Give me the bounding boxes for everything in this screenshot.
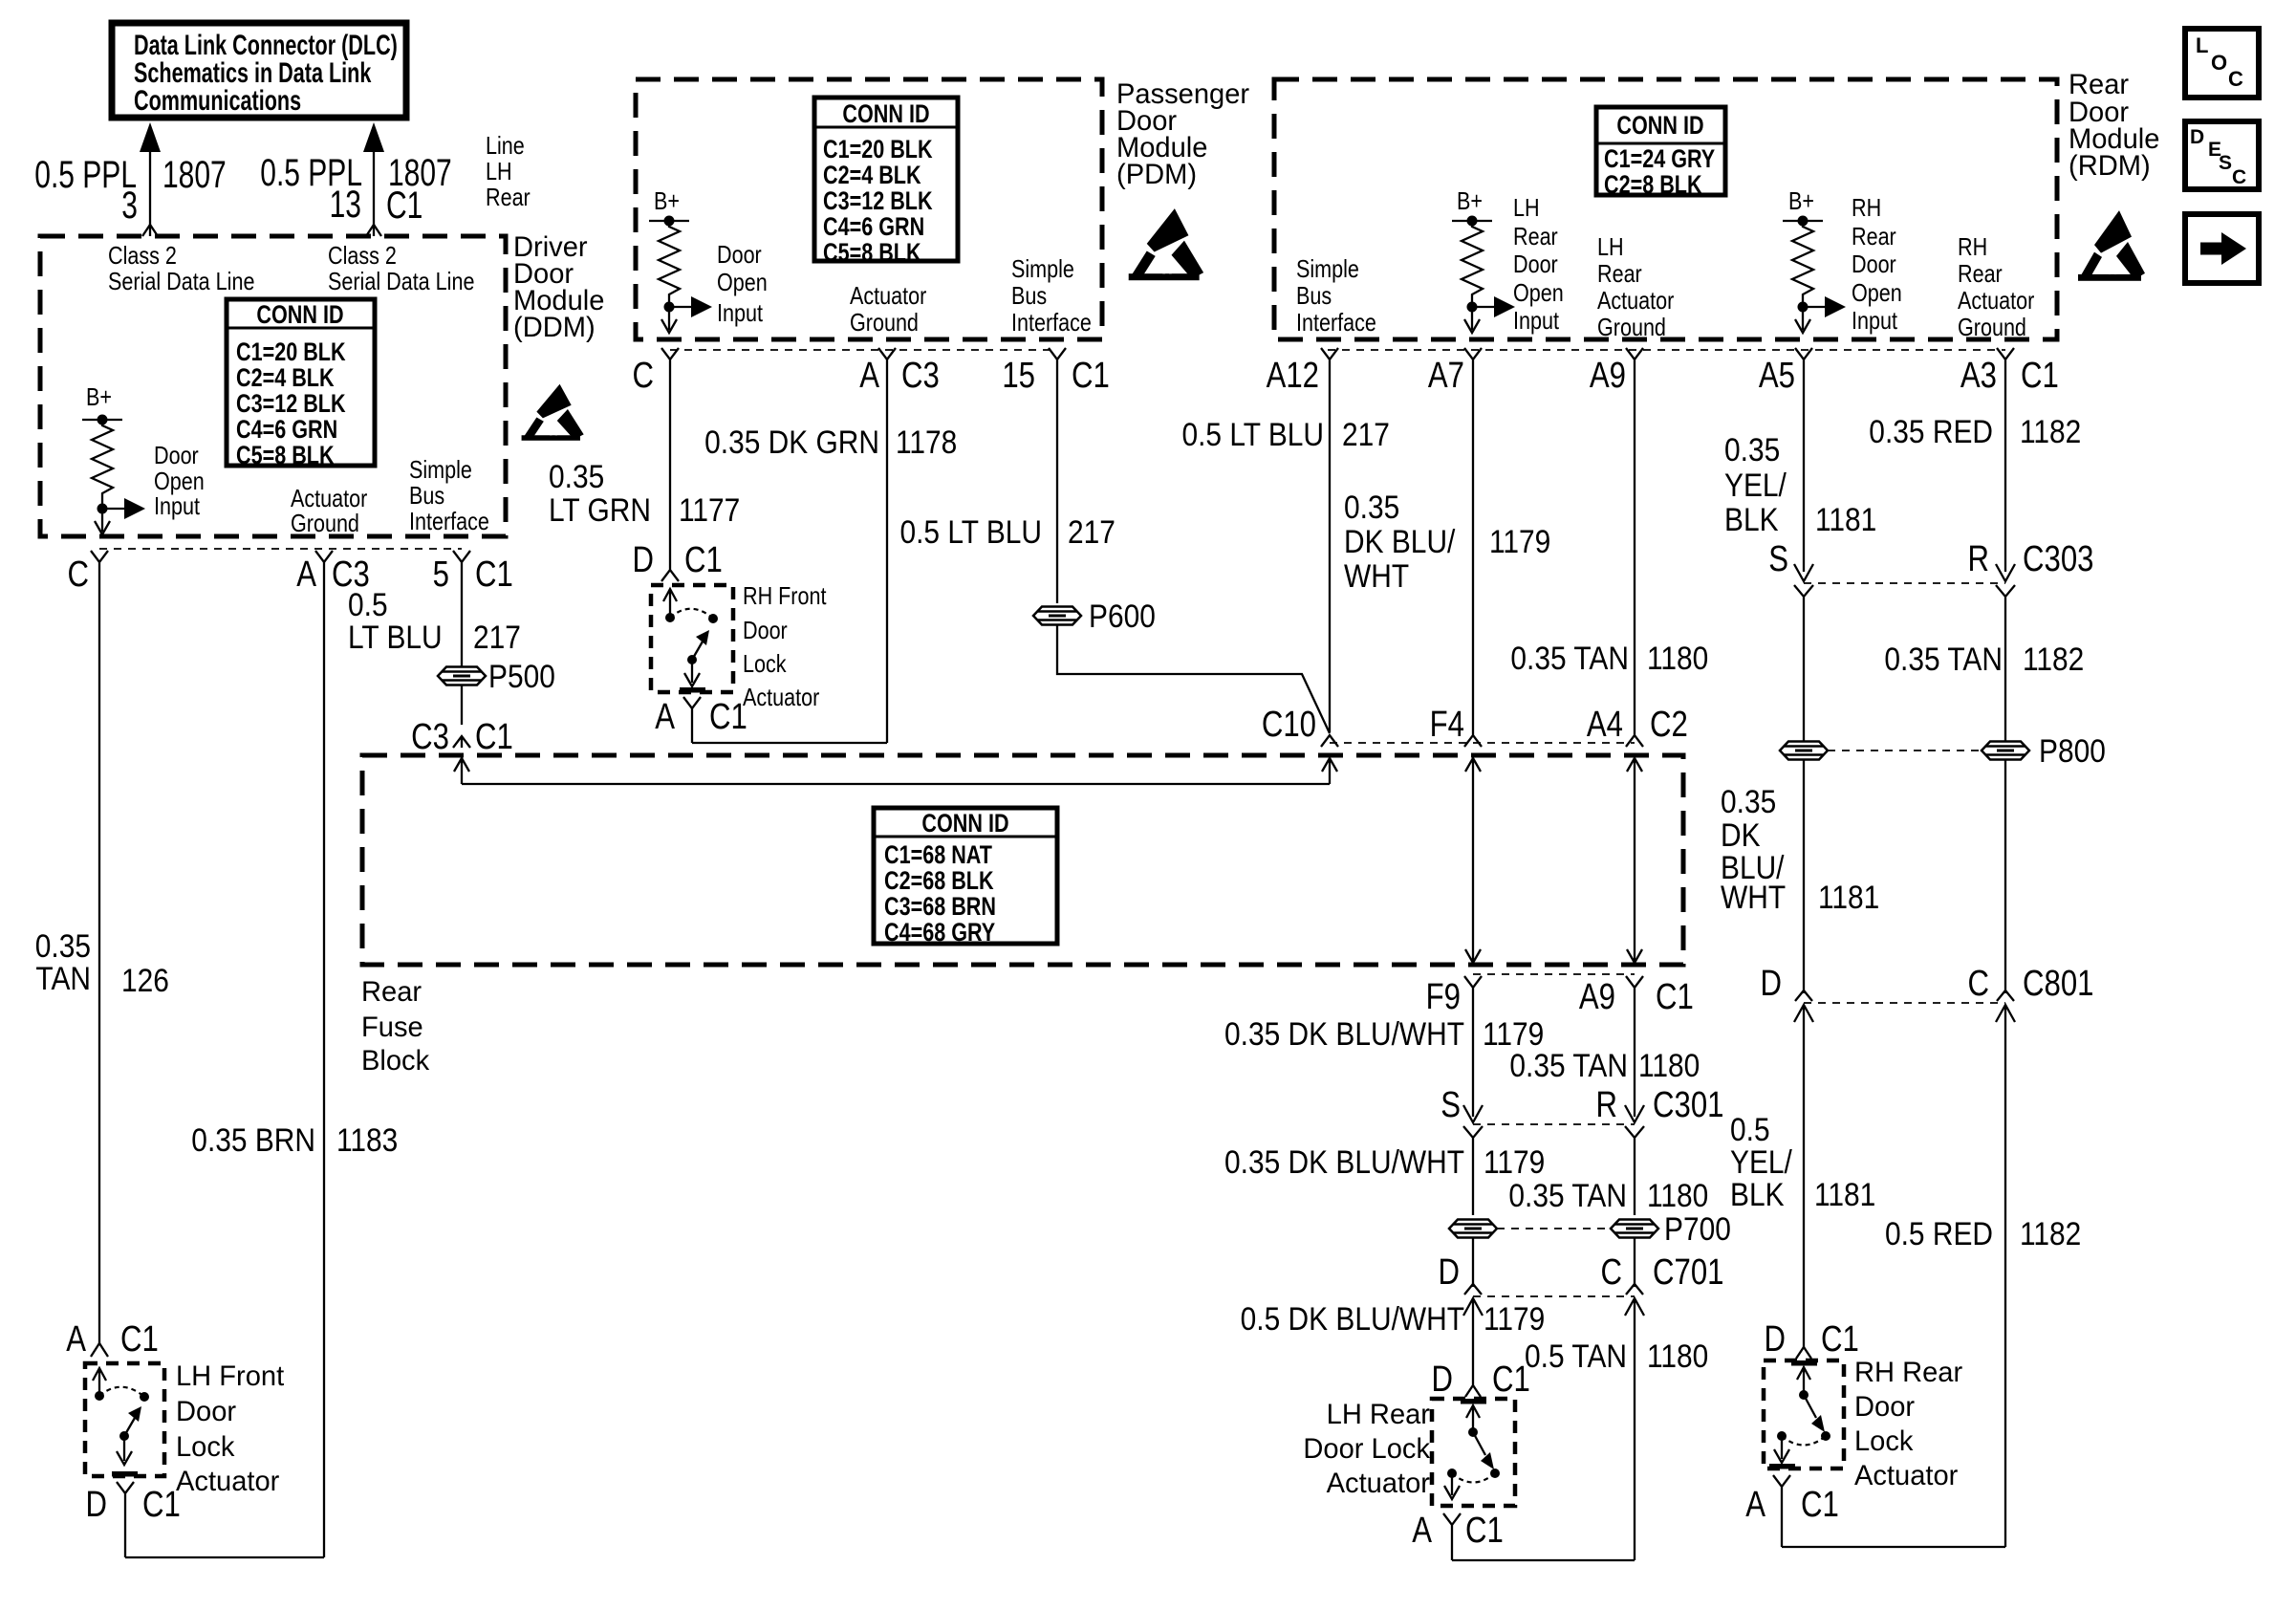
svg-text:A9: A9	[1579, 977, 1615, 1017]
svg-text:O: O	[2211, 51, 2227, 75]
pin C connector	[91, 551, 108, 1343]
svg-text:A: A	[1412, 1511, 1433, 1551]
svg-text:Class 2: Class 2	[328, 242, 397, 270]
svg-text:0.35 TAN: 0.35 TAN	[1508, 1177, 1627, 1213]
svg-text:Rear: Rear	[1852, 223, 1896, 250]
RH front actuator internals: up arrow	[663, 589, 677, 618]
PDM pin C connector	[661, 348, 679, 568]
RH rear actuator switch lever	[1804, 1395, 1816, 1418]
RH front actuator bottom contact bar	[680, 687, 705, 693]
pin 5/C1 connector	[453, 551, 470, 666]
svg-text:1180: 1180	[1647, 1338, 1708, 1374]
RDM pin A12 connector	[1321, 348, 1338, 732]
svg-text:A12: A12	[1267, 356, 1319, 396]
resistor RDM RH rear door open input	[1792, 221, 1813, 307]
svg-text:Input: Input	[154, 492, 200, 520]
down arrow to pin C	[101, 509, 103, 532]
svg-text:RH: RH	[1852, 194, 1881, 222]
svg-text:0.35: 0.35	[35, 927, 91, 964]
P800 dashed link	[1828, 750, 1982, 751]
svg-text:Lock: Lock	[1854, 1425, 1914, 1457]
svg-text:1178: 1178	[896, 424, 957, 460]
svg-text:C10: C10	[1262, 705, 1316, 745]
svg-text:C801: C801	[2023, 964, 2093, 1004]
svg-text:217: 217	[1342, 416, 1390, 452]
svg-text:C4=6 GRN: C4=6 GRN	[236, 416, 337, 445]
svg-text:1181: 1181	[1818, 879, 1879, 915]
svg-text:C2: C2	[1650, 705, 1688, 745]
svg-text:B+: B+	[654, 187, 680, 215]
svg-text:0.35 DK GRN: 0.35 DK GRN	[704, 424, 879, 460]
svg-text:WHT: WHT	[1344, 557, 1409, 594]
B+ bar and node RDM LH	[1452, 220, 1492, 222]
svg-text:C: C	[2228, 67, 2243, 91]
Rear Door Module dashed box	[1274, 79, 2057, 339]
arrow to LH Rear Door Open Input	[1472, 306, 1500, 308]
svg-text:P700: P700	[1664, 1210, 1731, 1247]
svg-text:Ground: Ground	[1597, 314, 1666, 341]
svg-text:D: D	[632, 540, 654, 580]
svg-text:Open: Open	[1852, 279, 1902, 307]
svg-text:0.35 TAN: 0.35 TAN	[1509, 1047, 1628, 1083]
CONN ID table DDM	[227, 299, 375, 466]
svg-text:(PDM): (PDM)	[1116, 159, 1197, 190]
svg-text:C1: C1	[1656, 977, 1694, 1017]
svg-text:C3=12 BLK: C3=12 BLK	[823, 187, 933, 216]
svg-text:B+: B+	[86, 383, 112, 411]
DDM connector face line	[99, 548, 462, 550]
svg-text:C: C	[1600, 1252, 1622, 1293]
svg-text:0.5 RED: 0.5 RED	[1885, 1215, 1993, 1251]
svg-text:Interface: Interface	[1296, 309, 1376, 337]
svg-text:Door: Door	[176, 1396, 236, 1427]
svg-text:(DDM): (DDM)	[513, 312, 596, 343]
Rear Fuse Block dashed box	[362, 755, 1683, 965]
svg-text:0.35 DK BLU/WHT: 0.35 DK BLU/WHT	[1224, 1143, 1464, 1180]
RH rear actuator top contact bar	[1791, 1360, 1817, 1366]
fuse block top connector face line	[1330, 742, 1635, 744]
svg-text:F9: F9	[1426, 977, 1461, 1017]
svg-text:Door: Door	[1852, 250, 1896, 278]
Passenger Door Module dashed box	[636, 79, 1102, 339]
svg-text:1180: 1180	[1638, 1047, 1700, 1083]
svg-text:A: A	[1745, 1485, 1766, 1525]
ESD symbol PDM	[1129, 208, 1203, 280]
svg-text:A: A	[655, 697, 676, 737]
svg-text:LH: LH	[486, 158, 512, 185]
wire D to actuator ground return	[125, 1556, 324, 1558]
svg-text:P600: P600	[1089, 598, 1156, 634]
svg-text:Rear: Rear	[1958, 260, 2003, 288]
svg-text:C2=4 BLK: C2=4 BLK	[823, 162, 921, 190]
svg-text:LH: LH	[1513, 194, 1540, 222]
LH rear actuator contact dot left	[1447, 1469, 1457, 1478]
svg-text:A7: A7	[1428, 356, 1464, 396]
wires below P700	[1472, 1238, 1474, 1287]
svg-text:D: D	[1764, 1319, 1786, 1360]
svg-text:Ground: Ground	[291, 510, 359, 537]
svg-text:Rear: Rear	[1597, 260, 1642, 288]
pin F4 chevron	[1464, 724, 1482, 747]
svg-text:P500: P500	[488, 658, 555, 694]
svg-text:Lock: Lock	[743, 650, 787, 678]
B+ bar and node	[82, 419, 122, 421]
svg-text:CONN ID: CONN ID	[842, 100, 929, 129]
DESC box	[2185, 121, 2259, 189]
svg-text:Serial Data Line: Serial Data Line	[108, 268, 254, 295]
svg-text:R: R	[1595, 1085, 1617, 1125]
internal bus arrow at C10	[1322, 758, 1337, 784]
svg-text:0.5 LT BLU: 0.5 LT BLU	[1181, 416, 1324, 452]
wire below P500	[461, 685, 463, 725]
RH Rear Door Lock Actuator box	[1764, 1360, 1844, 1469]
svg-text:C1: C1	[142, 1485, 181, 1525]
CONN ID table fuse block	[874, 808, 1057, 944]
svg-text:D: D	[2190, 126, 2204, 148]
svg-text:1179: 1179	[1484, 1143, 1545, 1180]
svg-text:0.35: 0.35	[549, 458, 604, 494]
svg-text:DK: DK	[1721, 816, 1761, 853]
svg-text:Ground: Ground	[850, 309, 919, 337]
RH front actuator dashed arc	[670, 609, 713, 619]
svg-text:C1=24 GRY: C1=24 GRY	[1604, 145, 1715, 174]
svg-text:Input: Input	[1852, 307, 1897, 335]
LH rear actuator switch lever	[1473, 1432, 1485, 1455]
svg-text:0.5: 0.5	[348, 586, 388, 622]
svg-text:Actuator: Actuator	[1958, 287, 2034, 315]
svg-text:LH Front: LH Front	[176, 1360, 284, 1392]
node dot RDM RH	[1798, 302, 1809, 313]
svg-text:0.5 DK BLU/WHT: 0.5 DK BLU/WHT	[1241, 1300, 1464, 1337]
svg-text:TAN: TAN	[35, 960, 91, 996]
LH front actuator pin D connector	[117, 1482, 134, 1557]
splice P600	[1033, 607, 1081, 625]
svg-text:Block: Block	[361, 1045, 429, 1077]
svg-text:1183: 1183	[336, 1121, 398, 1158]
svg-text:Serial Data Line: Serial Data Line	[328, 268, 474, 295]
svg-text:0.35 TAN: 0.35 TAN	[1884, 641, 2003, 677]
svg-text:217: 217	[473, 619, 521, 655]
svg-text:5: 5	[433, 555, 449, 595]
svg-text:Simple: Simple	[1011, 255, 1074, 283]
svg-text:Input: Input	[717, 299, 763, 327]
svg-text:0.35 TAN: 0.35 TAN	[1510, 640, 1629, 676]
wire LH rear A to ground return	[1452, 1559, 1635, 1561]
PDM connector face line	[670, 349, 1057, 351]
svg-text:0.5: 0.5	[1730, 1111, 1770, 1147]
ESD symbol RDM	[2078, 210, 2145, 281]
svg-text:F4: F4	[1430, 705, 1464, 745]
CONN ID table RDM	[1596, 107, 1725, 195]
LH front actuator switch lever	[119, 1431, 129, 1441]
RH front actuator pin D connector	[661, 568, 679, 581]
pin A9/C1 connector	[1626, 976, 1643, 1117]
LH Rear Door Lock Actuator box	[1432, 1399, 1515, 1506]
svg-text:Ground: Ground	[1958, 314, 2026, 341]
svg-text:RH Front: RH Front	[743, 582, 827, 610]
svg-text:1181: 1181	[1815, 501, 1876, 537]
wire RH rear A to ground return	[1782, 1546, 2005, 1548]
svg-text:Door Lock: Door Lock	[1303, 1433, 1430, 1465]
pin A4/C2 chevron	[1626, 724, 1643, 747]
svg-text:A3: A3	[1960, 356, 1997, 396]
svg-text:1177: 1177	[679, 491, 740, 528]
B+ bar and node RDM RH	[1783, 220, 1823, 222]
svg-text:A: A	[859, 356, 880, 396]
ESD symbol DDM	[522, 384, 584, 441]
svg-text:C701: C701	[1653, 1252, 1723, 1293]
pin C10 chevron	[1321, 735, 1338, 747]
node dot RDM LH	[1467, 302, 1478, 313]
LOC box	[2185, 29, 2259, 98]
svg-text:Door: Door	[1854, 1391, 1915, 1423]
svg-text:1179: 1179	[1484, 1300, 1545, 1337]
svg-text:0.35 BRN: 0.35 BRN	[191, 1121, 315, 1158]
svg-text:D: D	[1431, 1360, 1453, 1400]
svg-text:C3=68 BRN: C3=68 BRN	[884, 893, 996, 922]
LH front actuator internals: up arrow	[93, 1368, 106, 1396]
svg-text:YEL/: YEL/	[1724, 467, 1787, 503]
arrow to Door Open Input PDM	[669, 306, 697, 308]
svg-text:0.35: 0.35	[1344, 489, 1399, 525]
svg-text:Actuator: Actuator	[1327, 1468, 1431, 1499]
svg-text:L: L	[2196, 33, 2208, 57]
down arrow to pin A5	[1802, 307, 1804, 330]
svg-text:Simple: Simple	[409, 456, 472, 484]
wires below P800	[1803, 760, 1805, 993]
svg-text:Door: Door	[717, 241, 762, 269]
svg-text:C: C	[2232, 166, 2246, 188]
svg-text:C1: C1	[1465, 1511, 1504, 1551]
svg-text:0.35 RED: 0.35 RED	[1869, 413, 1993, 449]
svg-text:0.35: 0.35	[1721, 783, 1776, 819]
LH front actuator dashed arc	[99, 1387, 144, 1397]
svg-text:1179: 1179	[1489, 523, 1550, 559]
svg-text:Bus: Bus	[1296, 282, 1332, 310]
svg-text:C1: C1	[475, 555, 513, 595]
svg-text:Input: Input	[1513, 307, 1559, 335]
LH front actuator contact dot right	[140, 1392, 149, 1402]
svg-text:RH Rear: RH Rear	[1854, 1357, 1962, 1388]
svg-text:15: 15	[1002, 356, 1035, 396]
RH front actuator pin A connector	[683, 697, 701, 743]
RH rear actuator contact dot left	[1777, 1431, 1787, 1441]
svg-text:C2=4 BLK: C2=4 BLK	[236, 364, 335, 393]
RDM pin A9 connector	[1626, 348, 1643, 724]
svg-text:C5=8 BLK: C5=8 BLK	[236, 442, 335, 470]
svg-text:A: A	[66, 1319, 87, 1360]
svg-text:Open: Open	[1513, 279, 1564, 307]
LH front actuator pin A connector	[91, 1343, 108, 1357]
svg-text:A9: A9	[1590, 356, 1626, 396]
svg-text:1182: 1182	[2023, 641, 2084, 677]
svg-text:1180: 1180	[1647, 640, 1708, 676]
svg-text:Class 2: Class 2	[108, 242, 177, 270]
svg-text:LT GRN: LT GRN	[549, 491, 651, 528]
P700 dashed link	[1497, 1228, 1611, 1229]
svg-text:126: 126	[121, 962, 169, 998]
RH rear actuator up arrow	[1797, 1367, 1810, 1395]
svg-text:C5=8 BLK: C5=8 BLK	[823, 239, 921, 268]
svg-text:Open: Open	[717, 269, 768, 296]
LH Front Door Lock Actuator box	[85, 1363, 164, 1476]
svg-text:C: C	[632, 356, 654, 396]
svg-text:Line: Line	[486, 132, 525, 160]
svg-text:C3: C3	[411, 717, 449, 757]
svg-text:C1=20 BLK: C1=20 BLK	[823, 136, 933, 164]
RDM pin A5 connector	[1795, 348, 1812, 572]
splice pass-through P800 left	[1780, 742, 1828, 760]
svg-text:Rear: Rear	[361, 976, 422, 1008]
RH rear actuator dashed arc	[1782, 1436, 1826, 1446]
svg-text:CONN ID: CONN ID	[1616, 112, 1703, 141]
RH front actuator contact dot right	[708, 614, 718, 623]
svg-text:C3: C3	[901, 356, 940, 396]
fuse wire F4-F9 with end arrows	[1465, 758, 1481, 963]
svg-text:S: S	[2219, 152, 2232, 174]
wire to DLC pin 13	[373, 145, 375, 236]
svg-text:BLK: BLK	[1730, 1176, 1785, 1212]
svg-text:1180: 1180	[1647, 1177, 1708, 1213]
svg-text:13: 13	[330, 184, 361, 226]
svg-text:1182: 1182	[2020, 1215, 2081, 1251]
PDM pin A/C3 connector	[878, 348, 896, 743]
RH rear actuator down arrow	[1781, 1436, 1783, 1459]
wire to DLC pin 3	[149, 145, 151, 236]
LH rear actuator up arrow	[1466, 1405, 1480, 1432]
svg-text:1181: 1181	[1814, 1176, 1875, 1212]
arrow to RH Rear Door Open Input	[1803, 306, 1830, 308]
fuse wire A4-A9 with end arrows	[1627, 758, 1642, 963]
RH front actuator switch lever	[687, 655, 697, 664]
svg-text:A: A	[296, 555, 317, 595]
RH Front Door Lock Actuator box	[651, 585, 733, 692]
LH rear actuator dashed arc	[1452, 1473, 1495, 1483]
svg-text:C1: C1	[1072, 356, 1110, 396]
svg-text:C1: C1	[1821, 1319, 1859, 1360]
LH rear actuator pin A connector	[1443, 1513, 1461, 1560]
svg-text:S: S	[1768, 539, 1788, 579]
pin F9 connector	[1464, 976, 1482, 1117]
svg-text:BLK: BLK	[1724, 501, 1779, 537]
svg-text:B+: B+	[1788, 187, 1814, 215]
svg-text:C1: C1	[684, 540, 723, 580]
fuse block bottom connector face line	[1473, 973, 1635, 975]
svg-text:0.5 LT BLU: 0.5 LT BLU	[899, 513, 1042, 550]
RDM pin A3/C1 connector	[1997, 348, 2014, 572]
svg-text:Actuator: Actuator	[176, 1466, 280, 1497]
svg-text:C301: C301	[1653, 1085, 1723, 1125]
svg-text:Interface: Interface	[409, 508, 489, 535]
RDM pin A7 connector	[1464, 348, 1482, 724]
LH front actuator bottom contact bar	[112, 1471, 138, 1477]
svg-text:C1=20 BLK: C1=20 BLK	[236, 338, 346, 367]
svg-text:R: R	[1967, 539, 1989, 579]
node dot	[97, 504, 108, 514]
svg-text:Actuator: Actuator	[1854, 1460, 1959, 1491]
svg-text:C1: C1	[1801, 1485, 1839, 1525]
wire A to PDM actuator ground	[692, 742, 887, 744]
svg-text:C4=68 GRY: C4=68 GRY	[884, 919, 995, 947]
svg-text:C: C	[1967, 964, 1989, 1004]
node dot PDM	[664, 302, 675, 313]
svg-text:DK BLU/: DK BLU/	[1344, 523, 1455, 559]
down arrow to pin C PDM	[668, 307, 670, 330]
LH rear actuator top contact bar	[1461, 1399, 1486, 1404]
RH rear actuator pin A connector	[1773, 1475, 1790, 1547]
internal bus wire	[462, 783, 1330, 785]
svg-text:D: D	[1438, 1252, 1460, 1293]
svg-text:CONN ID: CONN ID	[921, 810, 1008, 838]
svg-text:C1: C1	[120, 1319, 159, 1360]
svg-text:C2=8 BLK: C2=8 BLK	[1604, 171, 1702, 200]
svg-text:LH: LH	[1597, 233, 1624, 261]
svg-text:(RDM): (RDM)	[2069, 150, 2151, 182]
pin A/C3 connector	[315, 551, 333, 1557]
svg-text:Door: Door	[743, 617, 788, 644]
svg-text:Open: Open	[154, 468, 205, 495]
svg-text:B+: B+	[1457, 187, 1483, 215]
svg-text:P800: P800	[2039, 732, 2106, 769]
splice pass-through P700 right	[1611, 1220, 1658, 1238]
svg-text:Rear: Rear	[1513, 223, 1558, 250]
svg-text:1182: 1182	[2020, 413, 2081, 449]
svg-text:C1=68 NAT: C1=68 NAT	[884, 841, 992, 870]
Driver Door Module dashed box	[40, 236, 506, 536]
svg-text:C1: C1	[709, 697, 747, 737]
svg-text:D: D	[85, 1485, 107, 1525]
CONN ID table PDM	[814, 98, 958, 261]
svg-text:Communications: Communications	[134, 83, 301, 116]
RH front actuator down arrow	[691, 660, 693, 683]
svg-text:1807: 1807	[162, 154, 227, 196]
RH rear actuator bottom contact bar	[1769, 1464, 1795, 1469]
svg-text:RH: RH	[1958, 233, 1987, 261]
svg-text:Actuator: Actuator	[1597, 287, 1674, 315]
svg-text:Lock: Lock	[176, 1431, 235, 1463]
svg-text:Rear: Rear	[486, 184, 531, 211]
splice pass-through P800 right	[1982, 742, 2029, 760]
svg-text:A5: A5	[1759, 356, 1795, 396]
wire P600 to fuse block C10	[1057, 625, 1330, 733]
svg-text:LT BLU: LT BLU	[348, 619, 443, 655]
svg-text:Door: Door	[1513, 250, 1558, 278]
connector chevron into fuse block	[453, 736, 470, 748]
forward arrow box	[2185, 214, 2259, 283]
svg-text:0.35: 0.35	[1724, 431, 1780, 468]
down arrow to pin A7	[1471, 307, 1473, 330]
splice P500	[438, 667, 486, 685]
svg-text:Actuator: Actuator	[291, 485, 367, 512]
svg-text:C3=12 BLK: C3=12 BLK	[236, 390, 346, 419]
svg-text:Bus: Bus	[1011, 282, 1047, 310]
svg-text:C1: C1	[2021, 356, 2059, 396]
svg-text:Bus: Bus	[409, 482, 444, 510]
svg-text:217: 217	[1068, 513, 1116, 550]
B+ bar and node PDM	[649, 220, 689, 222]
splice pass-through P700 left	[1449, 1220, 1497, 1238]
svg-text:3: 3	[121, 185, 138, 227]
svg-text:Interface: Interface	[1011, 309, 1092, 337]
svg-text:LH Rear: LH Rear	[1327, 1399, 1430, 1430]
LH rear actuator down arrow	[1451, 1473, 1453, 1495]
internal bus arrow at 5/C1 entry	[454, 758, 469, 784]
svg-text:Fuse: Fuse	[361, 1012, 423, 1043]
svg-text:C2=68 BLK: C2=68 BLK	[884, 867, 994, 896]
svg-text:YEL/: YEL/	[1730, 1143, 1792, 1180]
svg-text:C: C	[67, 555, 89, 595]
resistor DDM door open input	[92, 420, 113, 509]
